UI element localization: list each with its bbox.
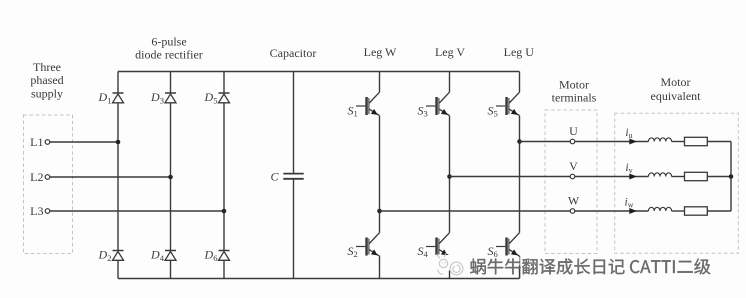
svg-text:W: W <box>568 194 580 208</box>
terminal U <box>569 124 578 144</box>
svg-text:V: V <box>569 159 578 173</box>
wire: leg V middle <box>449 116 451 233</box>
svg-text:Leg V: Leg V <box>435 45 465 59</box>
svg-text:U: U <box>569 124 578 138</box>
junction: phase V <box>447 174 452 179</box>
junction: L2 node <box>168 175 173 180</box>
dashed box: motor terminals <box>545 110 597 254</box>
svg-text:L2: L2 <box>30 170 43 184</box>
svg-text:Leg U: Leg U <box>504 45 535 59</box>
wire: leg U lower segment redraw <box>519 266 521 279</box>
diode D1 <box>98 90 124 105</box>
junction: L1 node <box>116 140 121 145</box>
svg-text:terminals: terminals <box>552 91 597 105</box>
svg-text:equivalent: equivalent <box>651 89 702 103</box>
diode D4 <box>150 248 176 263</box>
terminal L1 <box>30 135 50 149</box>
inductor branch v <box>649 173 672 177</box>
watermark snail logo <box>436 253 463 275</box>
wire: bottom DC rail <box>118 278 520 280</box>
svg-text:L3: L3 <box>30 204 43 218</box>
svg-text:6-pulse: 6-pulse <box>151 35 186 49</box>
resistor branch v <box>685 172 708 180</box>
resistor branch u <box>685 137 708 145</box>
diode D2 <box>98 248 124 263</box>
svg-text:Capacitor: Capacitor <box>270 46 317 60</box>
label: Leg W <box>364 45 397 59</box>
wire: leg V lower <box>449 256 451 278</box>
diode D5 <box>204 90 230 105</box>
watermark text <box>470 259 710 275</box>
label: 6-pulse diode rectifier <box>135 35 203 62</box>
wire: resistor to star point w <box>707 210 731 212</box>
wire: capacitor column bottom <box>293 179 295 279</box>
terminal W <box>568 194 580 214</box>
terminal V <box>569 159 578 179</box>
wire: resistor to star point u <box>707 141 731 143</box>
wire: branch w lead-in <box>575 210 649 212</box>
transistor S1 <box>348 92 380 119</box>
current arrow i_v <box>625 162 636 180</box>
wire: phase V to motor terminal <box>450 176 571 178</box>
wire: star point vertical <box>730 142 732 212</box>
wire: leg W lower <box>379 256 381 278</box>
junction: phase W <box>377 209 382 214</box>
junction: star point <box>729 174 734 179</box>
dashed box: three phased supply <box>24 115 73 254</box>
dashed box: motor equivalent <box>615 113 739 253</box>
wire: branch v lead-in <box>575 176 649 178</box>
svg-text:diode rectifier: diode rectifier <box>135 48 203 62</box>
wire: capacitor column top <box>293 72 295 174</box>
capacitor C <box>270 170 303 184</box>
transistor S4 <box>418 233 450 260</box>
wire: leg U middle <box>519 116 521 233</box>
terminal L2 <box>30 170 50 184</box>
wire: inductor to resistor w <box>672 210 685 212</box>
svg-text:supply: supply <box>31 87 63 101</box>
wire: L1 to rectifier <box>50 141 118 143</box>
resistor branch w <box>685 207 708 215</box>
junction: phase U <box>517 139 522 144</box>
wire: leg W upper <box>379 72 381 93</box>
inductor branch u <box>649 138 672 142</box>
junction: L3 node <box>222 209 227 214</box>
wire: rectifier column x=224 <box>223 72 225 94</box>
transistor S3 <box>418 92 450 119</box>
wire: leg V upper <box>449 72 451 93</box>
svg-text:C: C <box>270 170 279 184</box>
svg-text:phased: phased <box>30 73 63 87</box>
transistor S5 <box>488 92 520 119</box>
svg-text:Motor: Motor <box>661 75 691 89</box>
wire: rectifier column x=118 <box>117 72 119 94</box>
current arrow i_w <box>625 197 637 215</box>
wire: leg U lower <box>519 256 521 278</box>
wire: leg W middle <box>379 116 381 233</box>
inductor branch w <box>649 207 672 211</box>
wire: phase W to motor terminal <box>380 210 571 212</box>
current arrow i_u <box>625 127 636 145</box>
wire: L2 to rectifier <box>50 176 171 178</box>
wire: top DC rail <box>118 71 520 73</box>
svg-text:L1: L1 <box>30 135 43 149</box>
label: Leg V <box>435 45 465 59</box>
label: Three phased supply <box>30 60 63 101</box>
label: Motor equivalent <box>651 75 702 103</box>
wire: inductor to resistor u <box>672 141 685 143</box>
wire: L3 to rectifier <box>50 210 224 212</box>
svg-text:Motor: Motor <box>559 78 589 92</box>
diode D3 <box>150 90 176 105</box>
svg-text:Leg W: Leg W <box>364 45 397 59</box>
label: Motor terminals <box>552 78 597 105</box>
wire: inductor to resistor v <box>672 176 685 178</box>
label: Leg U <box>504 45 535 59</box>
wire: resistor to star point v <box>707 176 731 178</box>
wire: leg U upper <box>519 72 521 93</box>
wire: rectifier column x=170.5 <box>170 72 172 94</box>
wire: branch u lead-in <box>575 141 649 143</box>
label: Capacitor <box>270 46 317 60</box>
watermark background patch <box>435 255 468 271</box>
wire: phase U to motor terminal <box>520 141 571 143</box>
diode D6 <box>204 248 230 263</box>
transistor S6 <box>488 233 520 260</box>
terminal L3 <box>30 204 50 218</box>
transistor S2 <box>348 233 380 260</box>
svg-text:Three: Three <box>33 60 61 74</box>
